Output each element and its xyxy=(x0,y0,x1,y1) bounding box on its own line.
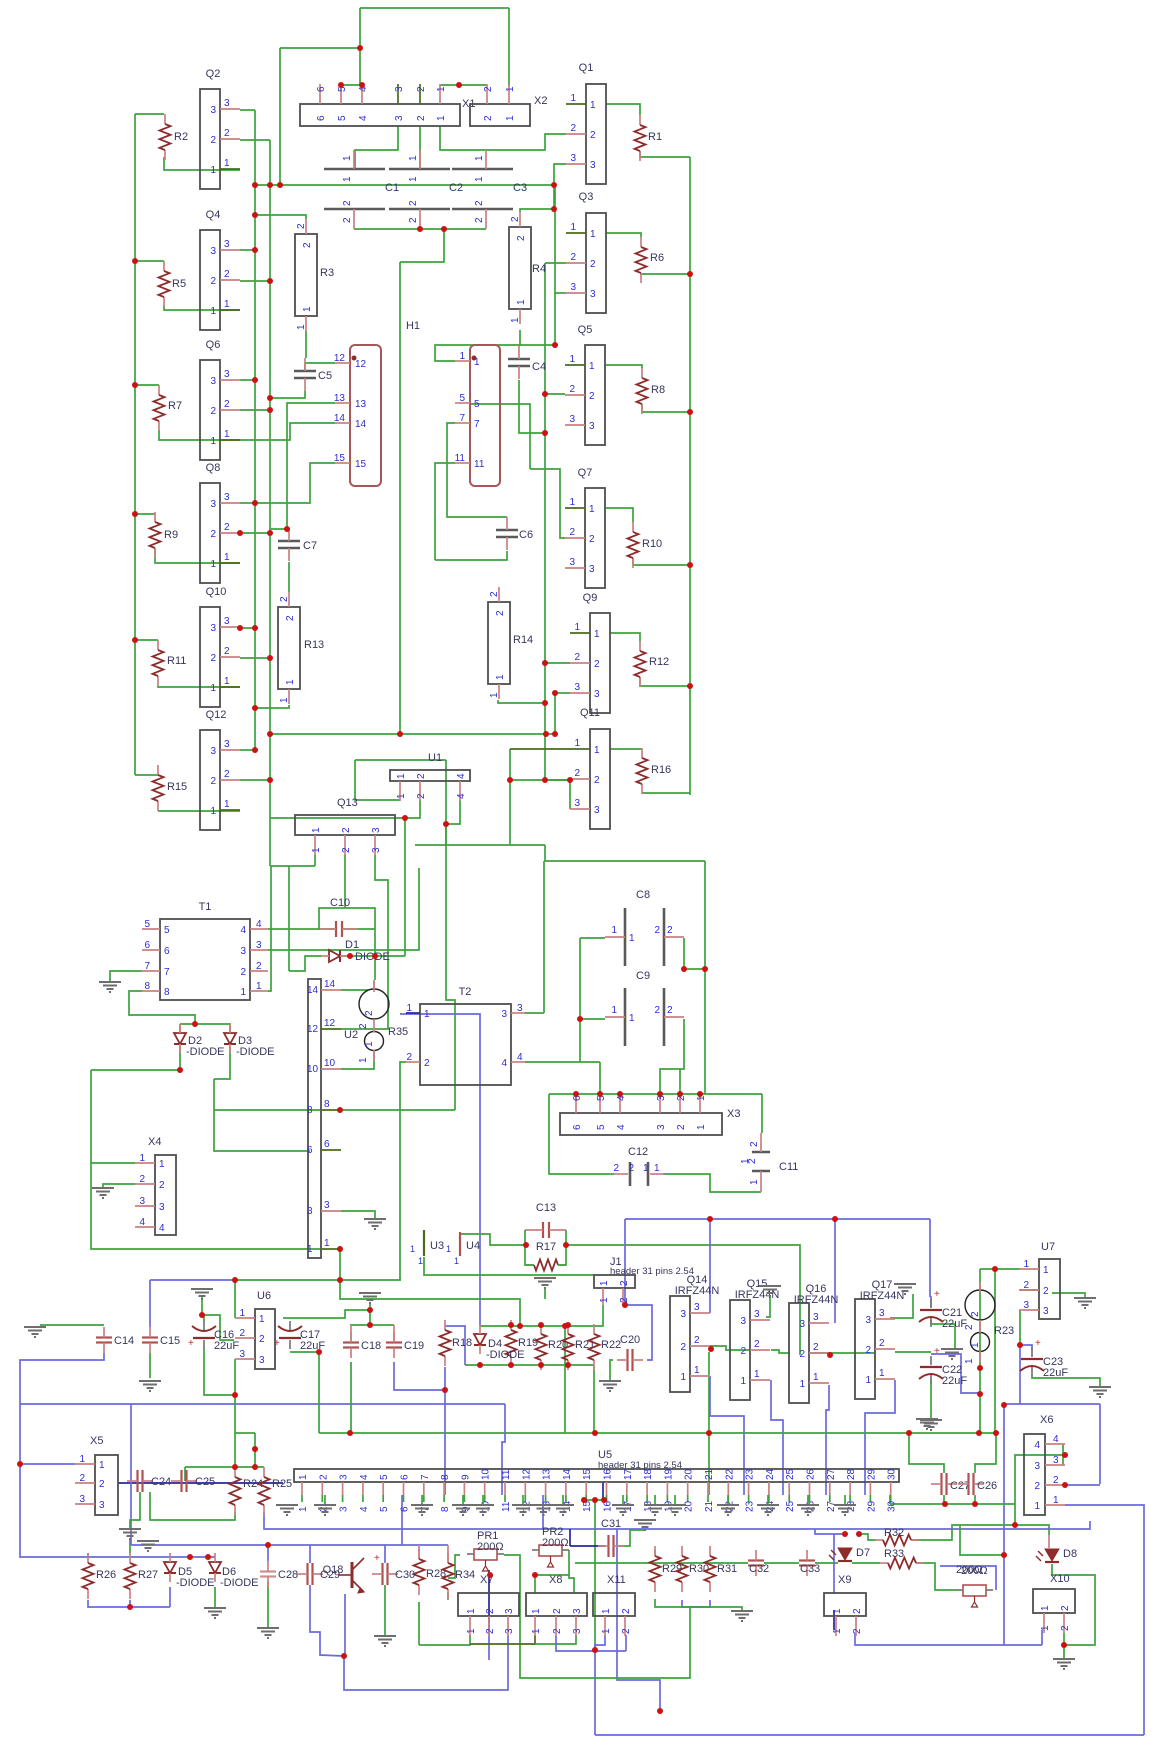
svg-text:2: 2 xyxy=(495,610,506,616)
svg-text:1: 1 xyxy=(569,497,575,508)
wire navy X5.2 xyxy=(118,1482,283,1484)
svg-text:Q8: Q8 xyxy=(206,462,221,474)
wire T2.4 xyxy=(525,1061,600,1063)
wire C19 top xyxy=(393,1325,395,1343)
wire C8.1 in xyxy=(580,937,605,939)
wire C6 bot xyxy=(435,551,507,560)
svg-text:2: 2 xyxy=(279,596,290,602)
ground C22 xyxy=(920,1420,942,1430)
svg-text:29: 29 xyxy=(866,1468,877,1480)
svg-text:2: 2 xyxy=(342,217,353,223)
wire R17 right bus xyxy=(566,1245,800,1355)
wire C21 bot xyxy=(931,1320,955,1348)
resistor R29 xyxy=(654,1546,656,1556)
svg-text:1: 1 xyxy=(964,1358,975,1364)
svg-text:C28: C28 xyxy=(278,1569,298,1581)
svg-text:2: 2 xyxy=(1060,1625,1071,1631)
svg-text:3: 3 xyxy=(324,1200,330,1211)
svg-text:1: 1 xyxy=(311,847,322,853)
resistor R6 xyxy=(640,237,642,247)
svg-text:header 31 pins 2.54: header 31 pins 2.54 xyxy=(610,1266,694,1277)
svg-text:22: 22 xyxy=(724,1500,735,1512)
svg-text:R34: R34 xyxy=(455,1569,475,1581)
wire blue x595 xyxy=(594,1651,596,1735)
wire R29 bot gnd xyxy=(655,1599,742,1610)
svg-text:3: 3 xyxy=(572,1628,583,1634)
svg-text:3: 3 xyxy=(371,847,382,853)
LED D8 xyxy=(1045,1549,1059,1561)
capacitor C31 xyxy=(607,1535,609,1557)
diode D3 xyxy=(224,1033,236,1044)
svg-text:200Ω: 200Ω xyxy=(542,1537,569,1549)
svg-text:7: 7 xyxy=(420,1474,431,1480)
connector X1 xyxy=(300,104,460,126)
svg-text:R27: R27 xyxy=(138,1569,158,1581)
svg-text:C7: C7 xyxy=(303,540,317,552)
resistor R21 xyxy=(567,1324,569,1334)
connector X2 xyxy=(470,104,530,126)
wire U2.1 drop xyxy=(339,1249,341,1280)
rail x255 xyxy=(254,110,256,748)
wire Q2.2 xyxy=(240,139,270,141)
svg-text:3: 3 xyxy=(210,746,216,757)
transistor Q15 xyxy=(730,1300,750,1400)
wire H1.12 xyxy=(305,363,335,371)
potentiometer PR3 xyxy=(963,1585,986,1596)
ground top right xyxy=(916,1419,938,1429)
svg-text:2: 2 xyxy=(224,522,230,533)
svg-text:2: 2 xyxy=(594,659,600,670)
svg-text:2: 2 xyxy=(552,1628,563,1634)
wire X1.1 to C3 xyxy=(440,126,486,150)
svg-text:2: 2 xyxy=(569,527,575,538)
svg-text:3: 3 xyxy=(570,153,576,164)
svg-text:Q7: Q7 xyxy=(578,467,593,479)
transistor Q1 xyxy=(586,84,606,184)
svg-text:IRFZ44N: IRFZ44N xyxy=(675,1285,720,1297)
svg-text:2: 2 xyxy=(474,217,485,223)
svg-text:Q11: Q11 xyxy=(580,707,600,719)
ground C15 xyxy=(139,1381,161,1391)
svg-text:R1: R1 xyxy=(648,131,662,143)
svg-text:+: + xyxy=(374,1553,380,1564)
svg-text:1: 1 xyxy=(99,1460,105,1471)
resistor R1 xyxy=(639,115,641,125)
svg-text:T1: T1 xyxy=(199,901,212,913)
wire blue y1404r xyxy=(1004,1403,1100,1405)
svg-text:1: 1 xyxy=(436,115,447,121)
svg-text:3: 3 xyxy=(501,1009,507,1020)
svg-text:1: 1 xyxy=(446,1244,451,1254)
wire C24 gnd xyxy=(130,1492,140,1528)
svg-text:2: 2 xyxy=(570,252,576,263)
svg-text:2: 2 xyxy=(569,384,575,395)
capacitor C19 xyxy=(386,1341,402,1343)
svg-text:2: 2 xyxy=(489,591,500,597)
wire navy riser xyxy=(569,1529,571,1546)
wire J1.1 xyxy=(480,1305,603,1326)
svg-text:C31: C31 xyxy=(601,1518,621,1530)
svg-text:3: 3 xyxy=(589,421,595,432)
svg-text:28: 28 xyxy=(846,1468,857,1480)
connector X10 xyxy=(1033,1589,1075,1613)
svg-text:2: 2 xyxy=(667,1005,673,1016)
wire D8 stub xyxy=(1048,1535,1050,1548)
svg-text:3: 3 xyxy=(79,1494,85,1505)
wire C23 blue loop xyxy=(1019,1345,1021,1404)
wire T2.1 blue xyxy=(400,1014,480,1326)
wire T1.7 gnd xyxy=(110,971,142,981)
wire pot3 net xyxy=(960,1525,1004,1555)
svg-text:2: 2 xyxy=(621,1608,632,1614)
wire Q5.2 xyxy=(545,393,565,395)
wire bus y1280 xyxy=(235,1279,401,1281)
wire U6.1 riser xyxy=(234,1280,236,1318)
wire PR1 right xyxy=(504,1555,690,1678)
wire T2.3 xyxy=(525,1012,544,1014)
svg-text:14: 14 xyxy=(307,985,319,996)
ground Q15 xyxy=(759,1286,781,1296)
svg-text:2: 2 xyxy=(799,1349,805,1360)
svg-text:5: 5 xyxy=(379,1474,390,1480)
wire C7 bot to R13 xyxy=(288,562,290,592)
svg-text:X8: X8 xyxy=(549,1574,562,1586)
wire R27 blue link xyxy=(130,1606,170,1608)
wire R24 top bus xyxy=(185,1466,264,1468)
svg-text:R29: R29 xyxy=(662,1563,682,1575)
ground U5 g p14 xyxy=(562,1495,564,1505)
rail x135 xyxy=(134,114,136,775)
svg-text:1: 1 xyxy=(599,1297,610,1303)
svg-text:1: 1 xyxy=(342,176,353,182)
svg-text:1: 1 xyxy=(799,1379,805,1390)
wire Q13.2 to C10 xyxy=(344,855,346,908)
svg-text:4: 4 xyxy=(359,1474,370,1480)
svg-text:1: 1 xyxy=(1040,1605,1051,1611)
svg-text:15: 15 xyxy=(355,459,367,470)
wire H1.1 drop xyxy=(554,185,556,345)
wire U1.2 xyxy=(270,800,420,818)
wire R10 bot xyxy=(633,558,690,565)
wire U2.8 left xyxy=(214,1109,320,1111)
svg-text:14: 14 xyxy=(334,413,346,424)
svg-text:3: 3 xyxy=(339,1474,350,1480)
svg-text:1: 1 xyxy=(601,1608,612,1614)
wire R24 bot xyxy=(150,1492,235,1520)
wire R3.2 xyxy=(255,215,306,219)
svg-text:C27: C27 xyxy=(950,1480,970,1492)
wire U7.2 gnd xyxy=(1052,1293,1085,1297)
wire R28 bot link xyxy=(418,1602,420,1645)
wire blue y1545b xyxy=(310,1544,448,1546)
wire R3.1 to C5 xyxy=(305,331,307,358)
ground U2.3 xyxy=(364,1219,386,1229)
wire blue right xyxy=(929,1219,931,1297)
svg-text:3: 3 xyxy=(574,682,580,693)
wire Q12.1 xyxy=(158,810,240,812)
svg-text:1: 1 xyxy=(813,1372,819,1383)
ground C14 xyxy=(24,1327,46,1337)
svg-text:1: 1 xyxy=(694,1365,700,1376)
svg-text:3: 3 xyxy=(574,798,580,809)
wire C30 bot gnd xyxy=(384,1585,386,1635)
wire C7 top xyxy=(270,528,290,530)
svg-text:C11: C11 xyxy=(779,1161,798,1173)
svg-text:3: 3 xyxy=(210,105,216,116)
svg-text:25: 25 xyxy=(785,1468,796,1480)
svg-text:3: 3 xyxy=(879,1308,885,1319)
svg-text:Q3: Q3 xyxy=(579,191,594,203)
wire T1.8 xyxy=(129,991,195,1024)
svg-text:19: 19 xyxy=(663,1500,674,1512)
svg-text:Q5: Q5 xyxy=(578,324,593,336)
svg-text:1: 1 xyxy=(589,361,595,372)
svg-text:C6: C6 xyxy=(519,529,533,541)
wire D2 top xyxy=(179,1024,181,1033)
IC H1 left half xyxy=(350,345,381,486)
wire xyxy=(520,185,554,212)
wire x446 down xyxy=(446,824,455,1110)
svg-text:6: 6 xyxy=(316,115,327,121)
svg-text:1: 1 xyxy=(589,504,595,515)
wire C22 blue xyxy=(931,1354,980,1393)
svg-text:C30: C30 xyxy=(395,1569,415,1581)
svg-text:R13: R13 xyxy=(304,639,324,651)
transistor Q8 xyxy=(200,483,220,583)
svg-text:30: 30 xyxy=(887,1500,898,1512)
svg-text:2: 2 xyxy=(485,1608,496,1614)
svg-text:Q10: Q10 xyxy=(206,586,227,598)
svg-text:2: 2 xyxy=(79,1473,85,1484)
capacitor C8 xyxy=(624,908,627,966)
wire C30 top xyxy=(384,1545,386,1563)
wire x705 xyxy=(704,861,706,969)
capacitor C20 xyxy=(626,1349,628,1371)
svg-text:1: 1 xyxy=(574,738,580,749)
transistor Q5 xyxy=(585,345,605,445)
svg-text:C19: C19 xyxy=(404,1340,424,1352)
wire pot3 blue xyxy=(940,1566,996,1590)
svg-text:1: 1 xyxy=(79,1454,85,1465)
svg-text:2: 2 xyxy=(552,1608,563,1614)
wire C8.1 side xyxy=(579,938,581,1019)
transistor Q6 xyxy=(200,360,220,460)
ground X4 xyxy=(92,1188,114,1198)
svg-text:3: 3 xyxy=(590,289,596,300)
ground D6 xyxy=(204,1608,226,1618)
wire X6.43 tie xyxy=(1015,1455,1063,1525)
resistor R25 xyxy=(263,1467,265,1477)
connector X11 xyxy=(593,1593,635,1616)
wire blue loop low xyxy=(344,1635,508,1690)
svg-text:22uF: 22uF xyxy=(942,1375,967,1387)
svg-text:2: 2 xyxy=(749,1141,760,1147)
svg-text:2: 2 xyxy=(285,615,296,621)
svg-text:R18: R18 xyxy=(452,1337,472,1349)
ground U5 g p1 xyxy=(276,1505,298,1515)
rail x690 xyxy=(689,157,691,795)
svg-text:R15: R15 xyxy=(167,781,187,793)
svg-text:3: 3 xyxy=(1023,1300,1029,1311)
svg-text:27: 27 xyxy=(826,1468,837,1480)
connector X5 xyxy=(95,1455,118,1515)
wire H1.5 xyxy=(470,404,530,469)
resistor R16 xyxy=(641,748,643,758)
svg-text:1: 1 xyxy=(1023,1259,1029,1270)
svg-text:-DIODE: -DIODE xyxy=(220,1577,259,1589)
svg-text:5: 5 xyxy=(596,1124,607,1130)
transistor Q7 xyxy=(585,488,605,588)
wire Q4.3 xyxy=(240,249,255,251)
ground U5 g p9 xyxy=(462,1495,464,1505)
svg-text:1: 1 xyxy=(296,324,307,330)
svg-text:5: 5 xyxy=(474,399,480,410)
diode D1 xyxy=(329,950,340,962)
svg-text:30: 30 xyxy=(887,1468,898,1480)
wire riser xa xyxy=(979,1269,981,1433)
svg-text:1: 1 xyxy=(754,1369,760,1380)
svg-text:2: 2 xyxy=(594,775,600,786)
ground Q17 xyxy=(894,1284,916,1294)
wire bus y866 xyxy=(270,865,315,867)
ground C30 xyxy=(374,1636,396,1646)
svg-text:C9: C9 xyxy=(636,970,650,982)
svg-text:R11: R11 xyxy=(167,655,186,667)
capacitor C22 xyxy=(920,1366,942,1368)
svg-text:2: 2 xyxy=(516,235,527,241)
wire C22 bot xyxy=(930,1380,932,1419)
svg-text:2: 2 xyxy=(210,776,216,787)
wire H1.13 xyxy=(287,403,335,529)
svg-text:1: 1 xyxy=(611,1005,617,1016)
capacitor C33 xyxy=(799,1559,815,1561)
transistor Q12 xyxy=(200,730,220,830)
svg-text:C8: C8 xyxy=(636,889,650,901)
wire R7 top xyxy=(135,384,159,386)
wire X5 blue down xyxy=(20,1464,88,1557)
svg-text:1: 1 xyxy=(574,622,580,633)
svg-text:1: 1 xyxy=(324,1238,330,1249)
wire D2 D3 top xyxy=(180,1024,230,1033)
svg-text:+: + xyxy=(934,1346,940,1357)
wire U1 net top xyxy=(355,759,446,761)
svg-text:1: 1 xyxy=(342,155,353,161)
svg-text:2: 2 xyxy=(667,925,673,936)
wire R13.1 xyxy=(255,705,289,708)
svg-text:6: 6 xyxy=(572,1124,583,1130)
capacitor C13 xyxy=(542,1222,544,1238)
resistor R24 xyxy=(234,1467,236,1477)
svg-text:C4: C4 xyxy=(532,361,546,373)
wire Q15.3 gnd xyxy=(766,1297,770,1317)
svg-text:3: 3 xyxy=(569,557,575,568)
svg-text:2: 2 xyxy=(224,646,230,657)
svg-text:29: 29 xyxy=(866,1500,877,1512)
svg-text:1: 1 xyxy=(590,229,596,240)
svg-text:3: 3 xyxy=(570,282,576,293)
wire R30 R31 blue xyxy=(682,1600,710,1607)
ground C28 xyxy=(257,1628,279,1638)
svg-text:3: 3 xyxy=(210,246,216,257)
svg-text:2: 2 xyxy=(416,773,427,779)
wire R2627 bot blue xyxy=(88,1600,130,1607)
capacitor C16 xyxy=(193,1337,215,1339)
ground C31 xyxy=(634,1520,656,1530)
capacitor C27 xyxy=(940,1473,942,1495)
svg-text:11: 11 xyxy=(455,453,466,464)
svg-text:2: 2 xyxy=(865,1345,871,1356)
wire Q1.3 xyxy=(554,164,566,185)
svg-text:2: 2 xyxy=(574,652,580,663)
svg-text:14: 14 xyxy=(355,419,367,430)
wire C17 right loop xyxy=(283,1317,290,1319)
wire C25 drop xyxy=(184,1467,186,1481)
wire C32-C33 xyxy=(764,1562,799,1564)
ground C18 xyxy=(359,1293,381,1303)
transistor Q4 xyxy=(200,230,220,330)
svg-text:C33: C33 xyxy=(800,1563,820,1575)
svg-text:X3: X3 xyxy=(727,1108,740,1120)
ground C20 xyxy=(599,1381,621,1391)
svg-text:4: 4 xyxy=(456,793,467,799)
ground U5 g p20 xyxy=(674,1495,676,1505)
ground C16 xyxy=(191,1289,213,1299)
wire C33-D7 xyxy=(815,1562,838,1564)
wire D8 bot xyxy=(1052,1564,1095,1645)
svg-text:7: 7 xyxy=(459,413,465,424)
wire D7 blue xyxy=(815,1529,845,1534)
svg-text:U4: U4 xyxy=(466,1240,480,1252)
wire C26 bot l xyxy=(974,1495,976,1504)
svg-text:200Ω: 200Ω xyxy=(477,1541,504,1553)
svg-text:1: 1 xyxy=(210,306,216,317)
connector X6 xyxy=(1024,1434,1045,1515)
wire Q3.3 xyxy=(555,292,566,294)
wire U1 net left drop xyxy=(445,760,447,845)
svg-text:10: 10 xyxy=(307,1064,319,1075)
svg-text:R25: R25 xyxy=(272,1478,292,1490)
svg-text:-DIODE: -DIODE xyxy=(236,1046,275,1058)
wire X4.1 stub xyxy=(91,1162,135,1164)
svg-text:H1: H1 xyxy=(406,320,420,332)
wire x595 drop xyxy=(594,1500,596,1651)
wire C23 blue xyxy=(1020,1345,1032,1350)
ground C21 xyxy=(941,1349,963,1359)
wire H1.1 xyxy=(435,345,555,361)
svg-text:2: 2 xyxy=(224,769,230,780)
svg-text:2: 2 xyxy=(224,128,230,139)
wire H1.15 xyxy=(255,463,335,503)
resistor R11 xyxy=(157,640,159,650)
svg-text:1: 1 xyxy=(224,429,230,440)
svg-text:2: 2 xyxy=(364,1010,375,1016)
svg-text:T2: T2 xyxy=(459,986,472,998)
wire blue bottom xyxy=(595,1734,1144,1736)
svg-text:3: 3 xyxy=(594,689,600,700)
svg-text:1: 1 xyxy=(358,1057,369,1063)
wire T1.2 riser xyxy=(288,866,290,971)
svg-text:1: 1 xyxy=(139,1153,145,1164)
wire Q15.1 blue xyxy=(771,1380,783,1495)
svg-text:3: 3 xyxy=(504,1628,515,1634)
svg-text:25: 25 xyxy=(785,1500,796,1512)
wire C23 bot xyxy=(1032,1375,1100,1386)
svg-text:1: 1 xyxy=(570,93,576,104)
wire C16 bot xyxy=(204,1348,235,1395)
svg-text:1: 1 xyxy=(224,799,230,810)
svg-text:9: 9 xyxy=(460,1474,471,1480)
connector X8 xyxy=(526,1593,587,1616)
